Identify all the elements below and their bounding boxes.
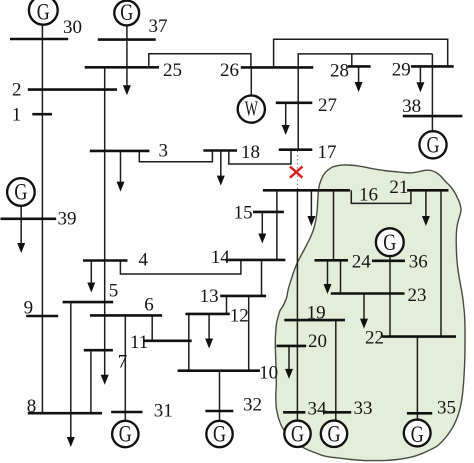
svg-text:W: W [245, 96, 258, 120]
wire: tap to bus 28 [351, 54, 353, 67]
wire: line 12-11 / 11-10 [188, 314, 190, 371]
generator G37 [114, 1, 139, 26]
generator G39 [7, 178, 35, 206]
bus 38 [403, 115, 463, 118]
bus 23 [331, 292, 405, 295]
svg-text:28: 28 [330, 60, 349, 81]
load arrow bus 4 [90, 261, 92, 284]
wire: line 13-10 [248, 296, 250, 371]
svg-text:38: 38 [402, 96, 421, 117]
bus 14 [225, 259, 285, 262]
svg-text:27: 27 [318, 95, 337, 116]
bus 39 [1, 218, 57, 221]
bus 35 [407, 412, 432, 415]
svg-text:14: 14 [211, 247, 231, 268]
load arrow bus 15 [261, 212, 263, 234]
svg-text:29: 29 [392, 60, 411, 81]
svg-text:30: 30 [63, 17, 82, 38]
wind unit W at bus 26 [238, 96, 265, 123]
island region (green blob) [275, 165, 465, 461]
wire: line 21-22 [440, 190, 442, 336]
bus 9 [26, 315, 58, 318]
bus 36 [372, 259, 405, 262]
wire: line 16-15 / 15-14 [276, 190, 278, 260]
wire: G37 stem / line 25-37 [126, 26, 128, 68]
bus 20 [277, 345, 307, 348]
wire: line 22-35 / G35 stem [416, 337, 418, 422]
generator G33 [321, 421, 347, 447]
load arrow bus 23 [363, 294, 365, 320]
svg-text:G: G [291, 421, 304, 446]
wire: line 10-32 / G32 stem [219, 371, 221, 421]
load arrow bus 16 [310, 190, 312, 216]
bus 7 [84, 349, 113, 352]
bus 11 [144, 339, 192, 342]
svg-text:9: 9 [24, 298, 33, 319]
svg-text:19: 19 [307, 302, 326, 323]
wire: line 2-25 / 2-3 / 3-4 / 4-5 / 5-6 / 6-7 (long middle-left vertical) [104, 67, 106, 375]
svg-text:23: 23 [408, 285, 427, 306]
generator G32 [206, 421, 232, 447]
bus 6 [90, 314, 162, 317]
svg-text:G: G [427, 132, 440, 157]
svg-text:17: 17 [318, 142, 337, 163]
svg-text:22: 22 [365, 328, 384, 349]
wire: line 5-8 + load arrow bus 8 [70, 302, 72, 437]
bus 37 [98, 38, 156, 41]
wire: line 29-38 / G38 stem [431, 54, 433, 131]
bus 30 [10, 38, 68, 41]
svg-text:15: 15 [234, 203, 253, 224]
svg-text:G: G [120, 0, 133, 25]
bus 18 [203, 149, 237, 152]
bus 32 [205, 410, 233, 413]
svg-text:24: 24 [352, 251, 372, 272]
wire: line 26-29 top [274, 39, 448, 67]
bus 16 [263, 189, 350, 192]
bus 34 [283, 411, 305, 414]
wire: line 16-24 [333, 190, 335, 260]
bus 26 [241, 66, 313, 69]
bus 19 [284, 319, 345, 322]
wire: line 13-14 [261, 260, 263, 296]
bus 29 [411, 65, 454, 68]
bus 17 [279, 148, 313, 151]
wire: line 26-28 trunk [298, 54, 432, 68]
breaker open red X [290, 167, 303, 178]
bus 28 [348, 65, 371, 68]
wire: G30 stem / line 2-30 / bus1 chain / line 1-39 / line 9-39 / line 8-9 (long left vertical) [41, 26, 43, 414]
svg-text:10: 10 [259, 363, 278, 384]
svg-text:8: 8 [27, 396, 37, 417]
load arrow bus 7 (below) [101, 375, 109, 385]
svg-text:37: 37 [149, 16, 168, 37]
bus 33 [323, 411, 351, 414]
wire: G36 stem / line 23-36 / 22-23 [389, 256, 391, 336]
generator G36 [376, 228, 404, 256]
svg-text:G: G [119, 422, 132, 447]
svg-text:G: G [37, 0, 50, 24]
svg-text:11: 11 [130, 332, 148, 353]
load arrow bus 20 [288, 346, 290, 370]
bus 5 [63, 301, 114, 304]
wire: line 18-17 [229, 150, 291, 164]
bus 25 [85, 66, 159, 69]
load arrow bus 39 [20, 219, 22, 244]
generator G38 [419, 131, 446, 158]
bus 1 [32, 113, 52, 116]
wire: line 3-18 [139, 151, 212, 162]
wire: line 12-13 [226, 296, 228, 314]
wire: line 16-19 / 19-20 / 20-34 / G34 stem [296, 190, 298, 420]
bus 13 [220, 295, 266, 298]
bus 8 [28, 412, 102, 415]
svg-text:33: 33 [354, 398, 373, 419]
load arrow bus 21 [425, 190, 427, 216]
svg-text:39: 39 [58, 209, 77, 230]
load arrow bus 27 [285, 103, 287, 126]
generator G35 [404, 420, 431, 447]
svg-text:25: 25 [163, 60, 182, 81]
bus 22 [382, 335, 456, 338]
svg-text:32: 32 [243, 394, 262, 415]
load arrow bus 28 [358, 66, 360, 82]
wire: line 16-21 U connector [351, 190, 411, 203]
svg-text:G: G [14, 180, 27, 205]
bus 10 [178, 369, 260, 372]
svg-text:16: 16 [359, 184, 378, 205]
load arrow bus 29 [419, 66, 421, 82]
wire: line 4-14 [120, 260, 240, 274]
svg-text:26: 26 [220, 60, 239, 81]
load arrow bus 3 [120, 151, 122, 182]
svg-text:7: 7 [118, 351, 128, 372]
bus 15 [253, 211, 284, 214]
load arrow bus 25 [126, 67, 128, 86]
wire: G39 stem [20, 206, 22, 219]
svg-text:34: 34 [308, 399, 328, 420]
svg-text:13: 13 [200, 286, 219, 307]
svg-text:35: 35 [437, 398, 456, 419]
svg-text:1: 1 [12, 105, 22, 126]
wire: line 25-26 [149, 54, 251, 68]
load arrow bus 12 [208, 314, 210, 339]
wire: line 24-23 [340, 260, 342, 293]
wire: line 19-33 / G33 stem [335, 320, 337, 421]
wire: line 26-27 / 27-17 [297, 67, 299, 149]
svg-text:6: 6 [144, 295, 154, 316]
svg-text:20: 20 [308, 331, 327, 352]
wire: line 6-11 [151, 315, 153, 340]
load arrow bus 18 [220, 151, 222, 177]
svg-text:G: G [328, 421, 341, 446]
bus 3 [90, 150, 150, 153]
svg-text:5: 5 [109, 281, 119, 302]
svg-text:31: 31 [154, 400, 173, 421]
generator G30 [29, 0, 58, 25]
svg-text:21: 21 [389, 177, 408, 198]
svg-text:4: 4 [139, 249, 149, 270]
svg-text:18: 18 [241, 142, 260, 163]
svg-text:G: G [213, 422, 226, 447]
wire: line 26-W [250, 67, 252, 95]
bus 21 [407, 189, 448, 192]
bus 24 [315, 259, 349, 262]
load arrow bus 24 [327, 260, 329, 284]
wire: line 7-8 [90, 350, 92, 413]
bus 27 [276, 102, 313, 105]
svg-text:2: 2 [12, 79, 22, 100]
svg-text:36: 36 [409, 252, 428, 273]
svg-text:G: G [383, 230, 396, 255]
generator G34 [284, 421, 310, 447]
wire: line 6-31 / G31 stem [124, 315, 126, 420]
svg-text:G: G [411, 422, 424, 447]
svg-text:3: 3 [159, 140, 169, 161]
wire: dotted tripped line 17-16 [297, 151, 299, 190]
bus 2 [28, 88, 117, 91]
svg-text:12: 12 [230, 306, 249, 327]
generator G31 [112, 421, 138, 447]
bus 31 [111, 411, 142, 414]
bus 12 [185, 313, 229, 316]
bus 4 [83, 259, 128, 262]
